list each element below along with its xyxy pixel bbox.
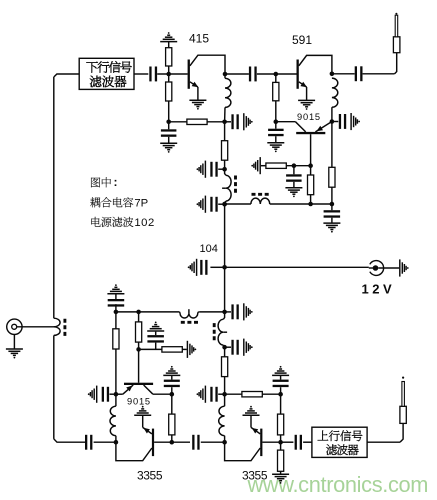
svg-text:591: 591 <box>292 33 312 47</box>
svg-text:9015: 9015 <box>297 112 321 122</box>
svg-text:104: 104 <box>200 243 218 255</box>
svg-text::: : <box>114 175 118 189</box>
svg-text:9015: 9015 <box>127 397 151 407</box>
svg-text:415: 415 <box>189 32 209 46</box>
svg-text:3355: 3355 <box>242 469 268 483</box>
svg-text:12V: 12V <box>362 282 396 297</box>
svg-text:102: 102 <box>134 217 154 229</box>
svg-text:7P: 7P <box>134 197 148 209</box>
svg-text:www.cntronics.com: www.cntronics.com <box>247 472 429 497</box>
svg-text:3355: 3355 <box>137 469 163 483</box>
